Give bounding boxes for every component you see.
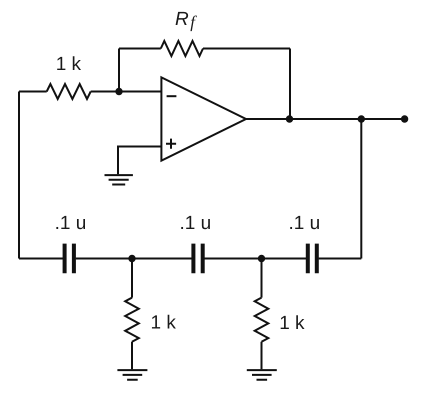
node output	[286, 115, 293, 122]
capacitor C3 .1 u	[308, 244, 317, 274]
resistor Rf (feedback)	[119, 41, 290, 56]
op-amp U1	[161, 77, 246, 160]
wire bottom segment 3	[205, 258, 307, 260]
capacitor C1 .1 u	[65, 244, 74, 274]
svg-text:1 k: 1 k	[56, 54, 82, 75]
resistor R1 1 k (series input)	[19, 84, 161, 99]
ground (shunt right)	[247, 370, 277, 380]
node B (C2-C3 junction)	[258, 255, 265, 262]
wire bottom segment 1	[19, 258, 63, 260]
svg-text:.1 u: .1 u	[180, 213, 212, 234]
wire right vertical	[360, 119, 362, 259]
node output terminal	[401, 115, 408, 122]
wire left vertical	[18, 92, 20, 259]
svg-text:1 k: 1 k	[279, 313, 305, 334]
capacitor C2 .1 u	[193, 244, 202, 274]
svg-text:1 k: 1 k	[151, 313, 177, 334]
svg-text:Rf: Rf	[175, 9, 197, 32]
node right branch	[358, 115, 365, 122]
wire bottom segment 2	[76, 258, 192, 260]
node inverting input junction	[115, 88, 122, 95]
ground (shunt left)	[117, 370, 147, 380]
svg-text:.1 u: .1 u	[55, 213, 87, 234]
ground (op-amp noninverting input)	[105, 175, 133, 184]
svg-text:.1 u: .1 u	[289, 213, 321, 234]
resistor R2 1 k (shunt left)	[125, 259, 139, 370]
wire bottom segment 4	[319, 258, 362, 260]
wire output	[246, 118, 405, 120]
node A (C1-C2 junction)	[128, 255, 135, 262]
resistor R3 1 k (shunt right)	[255, 259, 269, 370]
wire feedback up from inverting node	[118, 49, 120, 92]
wire noninverting input	[118, 147, 161, 175]
wire feedback down to output	[289, 49, 291, 120]
